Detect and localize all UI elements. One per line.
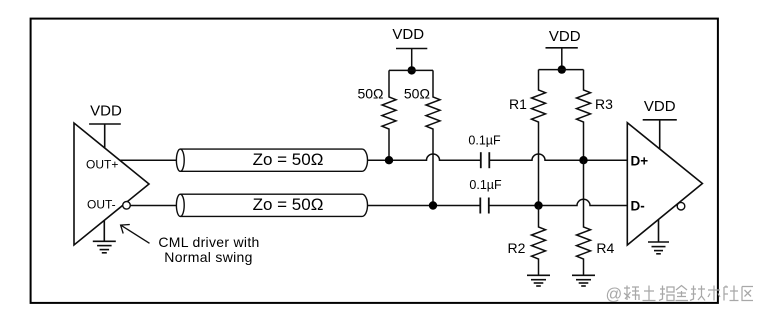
capacitor C2 0.1uF plates — [480, 198, 489, 214]
bubble on receiver lower edge — [677, 202, 685, 210]
wire VDD stub to node — [411, 49, 413, 71]
watermark glyph 1 — [624, 286, 639, 301]
wire VDD stub into receiver — [659, 120, 661, 149]
resistor R2 — [532, 206, 546, 276]
watermark glyph 3 — [659, 286, 674, 301]
svg-text:0.1µF: 0.1µF — [468, 134, 501, 148]
svg-text:@: @ — [606, 286, 623, 304]
svg-text:R3: R3 — [595, 96, 613, 112]
op-amp U1 CML driver triangle — [74, 123, 149, 245]
svg-text:Zo = 50Ω: Zo = 50Ω — [253, 150, 324, 169]
watermark glyph 4 — [676, 286, 689, 301]
resistor R1 — [532, 70, 546, 206]
svg-text:R4: R4 — [596, 240, 614, 256]
node VDD split (R1 R3) — [558, 65, 566, 73]
op-amp U2 receiver triangle — [627, 123, 702, 245]
svg-text:VDD: VDD — [549, 28, 581, 45]
wire split rail — [389, 69, 433, 71]
svg-text:D+: D+ — [631, 153, 649, 168]
wire C2 to D- with hop over R3 drop — [489, 199, 628, 205]
svg-text:Zo = 50Ω: Zo = 50Ω — [253, 195, 324, 214]
wire T1 to cap C1 with hop over 50ohm drop — [368, 154, 481, 160]
capacitor C1 0.1uF plates — [481, 152, 490, 168]
ground (R4) — [572, 275, 595, 286]
inverting bubble on OUT- — [123, 202, 131, 210]
svg-text:Normal swing: Normal swing — [164, 249, 252, 265]
node VDD split (50ohm pair) — [408, 66, 416, 74]
svg-text:D-: D- — [631, 199, 645, 214]
watermark glyph 5 — [690, 286, 705, 301]
ground (R2) — [527, 275, 550, 286]
annotation arrow — [121, 225, 150, 244]
wire C1 to D+ with hop over R1 drop — [490, 154, 628, 160]
watermark glyph 8 — [742, 287, 753, 301]
resistor R4 with drop from D+ node — [577, 160, 591, 275]
watermark glyph 7 — [724, 286, 739, 301]
node R1/R2 to D- wire — [534, 201, 542, 209]
svg-text:50Ω: 50Ω — [404, 86, 430, 102]
svg-text:CML driver with: CML driver with — [158, 234, 259, 250]
wire VDD stub into driver — [104, 124, 106, 148]
svg-text:R1: R1 — [509, 96, 527, 112]
VDD rail bar (50ohm pair) — [396, 48, 427, 50]
wire OUT- bubble to line T2 — [130, 205, 176, 207]
resistor R3 — [577, 70, 591, 161]
svg-text:50Ω: 50Ω — [357, 86, 383, 102]
svg-text:VDD: VDD — [644, 98, 676, 115]
wire T2 to cap C2 — [368, 205, 481, 207]
ground (driver) — [93, 220, 116, 252]
watermark glyph 2 — [643, 286, 656, 301]
svg-text:OUT-: OUT- — [87, 198, 116, 212]
transmission line T1 cylinder — [176, 149, 367, 171]
svg-text:R2: R2 — [508, 240, 526, 256]
node 50ohm right to D- wire — [429, 201, 437, 209]
VDD rail bar (R1 R3) — [546, 47, 578, 49]
svg-text:VDD: VDD — [392, 26, 424, 43]
wire VDD stub to node — [561, 48, 563, 70]
transmission line T2 cylinder — [176, 194, 367, 216]
resistor 50ohm left — [382, 70, 396, 160]
svg-text:OUT+: OUT+ — [86, 157, 118, 171]
svg-text:VDD: VDD — [90, 102, 122, 119]
node 50ohm left to D+ wire — [385, 156, 393, 164]
ground (receiver) — [648, 220, 669, 254]
svg-text:0.1µF: 0.1µF — [469, 178, 502, 192]
wire split rail — [539, 69, 584, 71]
VDD rail bar (receiver) — [643, 119, 677, 121]
resistor 50ohm right — [426, 70, 440, 205]
wire OUT+ to line T1 — [120, 159, 176, 161]
VDD rail bar (driver) — [89, 123, 121, 125]
watermark glyph 6 — [708, 286, 720, 301]
node R3/R4 to D+ wire — [579, 156, 587, 164]
